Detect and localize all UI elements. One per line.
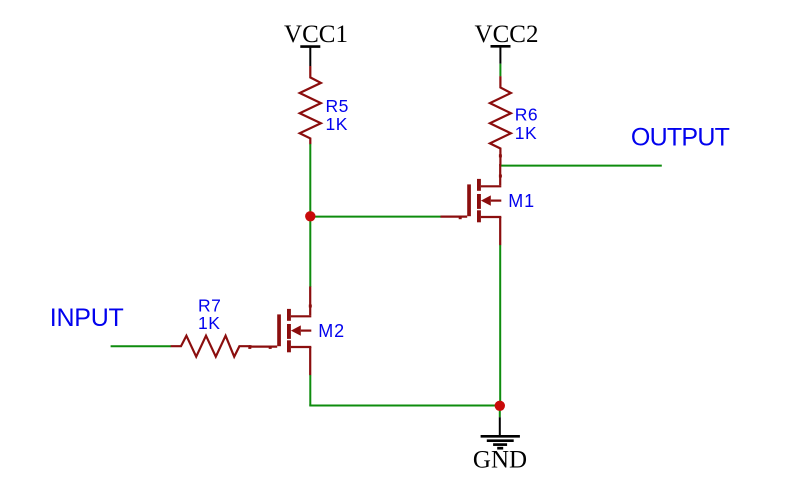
- svg-text:M1: M1: [508, 191, 535, 211]
- M1 gate pin: [441, 216, 468, 218]
- power symbol VCC2: [491, 46, 511, 64]
- wire M2 source down: [309, 375, 311, 406]
- pin end marker on R7: [248, 346, 251, 349]
- svg-text:1K: 1K: [515, 123, 537, 143]
- resistor R7: [171, 336, 250, 357]
- M2 body arrow: [291, 325, 301, 335]
- M1 gate bar: [467, 184, 471, 216]
- svg-text:1K: 1K: [198, 313, 220, 333]
- M2 source pin: [291, 346, 311, 348]
- M1 channel bottom bar: [477, 210, 481, 222]
- svg-text:R6: R6: [515, 105, 538, 125]
- ground: [481, 417, 520, 448]
- M1 source pin: [481, 216, 501, 218]
- M1 channel middle bar: [477, 194, 481, 209]
- power symbol VCC1: [300, 47, 320, 66]
- pin end marker on M1 drain: [499, 175, 502, 178]
- pin end marker on M2 drain: [309, 305, 312, 308]
- node A junction dot: [305, 211, 315, 221]
- svg-text:OUTPUT: OUTPUT: [631, 124, 730, 152]
- M1 body lead: [491, 200, 502, 202]
- wire R7 to M2 gate: [249, 345, 252, 347]
- M2 channel top bar: [287, 309, 291, 321]
- svg-text:M2: M2: [318, 321, 345, 341]
- M2 gate pin: [251, 346, 278, 348]
- wire node B to ground: [499, 406, 501, 417]
- pin end marker on M1 gate: [459, 216, 462, 219]
- wire node A to M1 gate: [310, 216, 441, 218]
- svg-text:VCC1: VCC1: [284, 21, 348, 48]
- M2 drain pin: [309, 287, 311, 316]
- M2 body lead: [301, 330, 312, 332]
- wire M2 source to node B: [309, 405, 495, 407]
- resistor R5: [300, 66, 321, 144]
- transistor M1: [441, 164, 502, 245]
- transistor M2: [251, 287, 312, 376]
- M1 channel top bar: [477, 179, 481, 191]
- svg-text:INPUT: INPUT: [50, 304, 124, 332]
- svg-text:GND: GND: [473, 447, 527, 474]
- svg-text:1K: 1K: [326, 114, 348, 134]
- M2 gate bar: [277, 314, 281, 346]
- M1 body arrow: [481, 195, 491, 205]
- svg-text:VCC2: VCC2: [475, 21, 539, 48]
- wire R5 to node A: [309, 144, 311, 216]
- pin end marker on R6: [499, 154, 502, 157]
- M2 channel middle bar: [287, 324, 291, 339]
- M2 channel bottom bar: [287, 340, 291, 352]
- M1 drain pin: [499, 164, 501, 185]
- node B junction dot: [495, 401, 505, 411]
- wire M1 source to node B: [499, 245, 501, 401]
- resistor R6: [490, 76, 511, 154]
- wire INPUT to R7: [111, 345, 171, 347]
- wire R6 to M1 drain: [499, 154, 501, 166]
- wire VCC2 to R6: [499, 64, 501, 77]
- pin end marker on M2 gate: [269, 346, 272, 349]
- wire OUTPUT from M1 drain: [500, 165, 661, 167]
- wire node A to M2 drain: [309, 216, 311, 287]
